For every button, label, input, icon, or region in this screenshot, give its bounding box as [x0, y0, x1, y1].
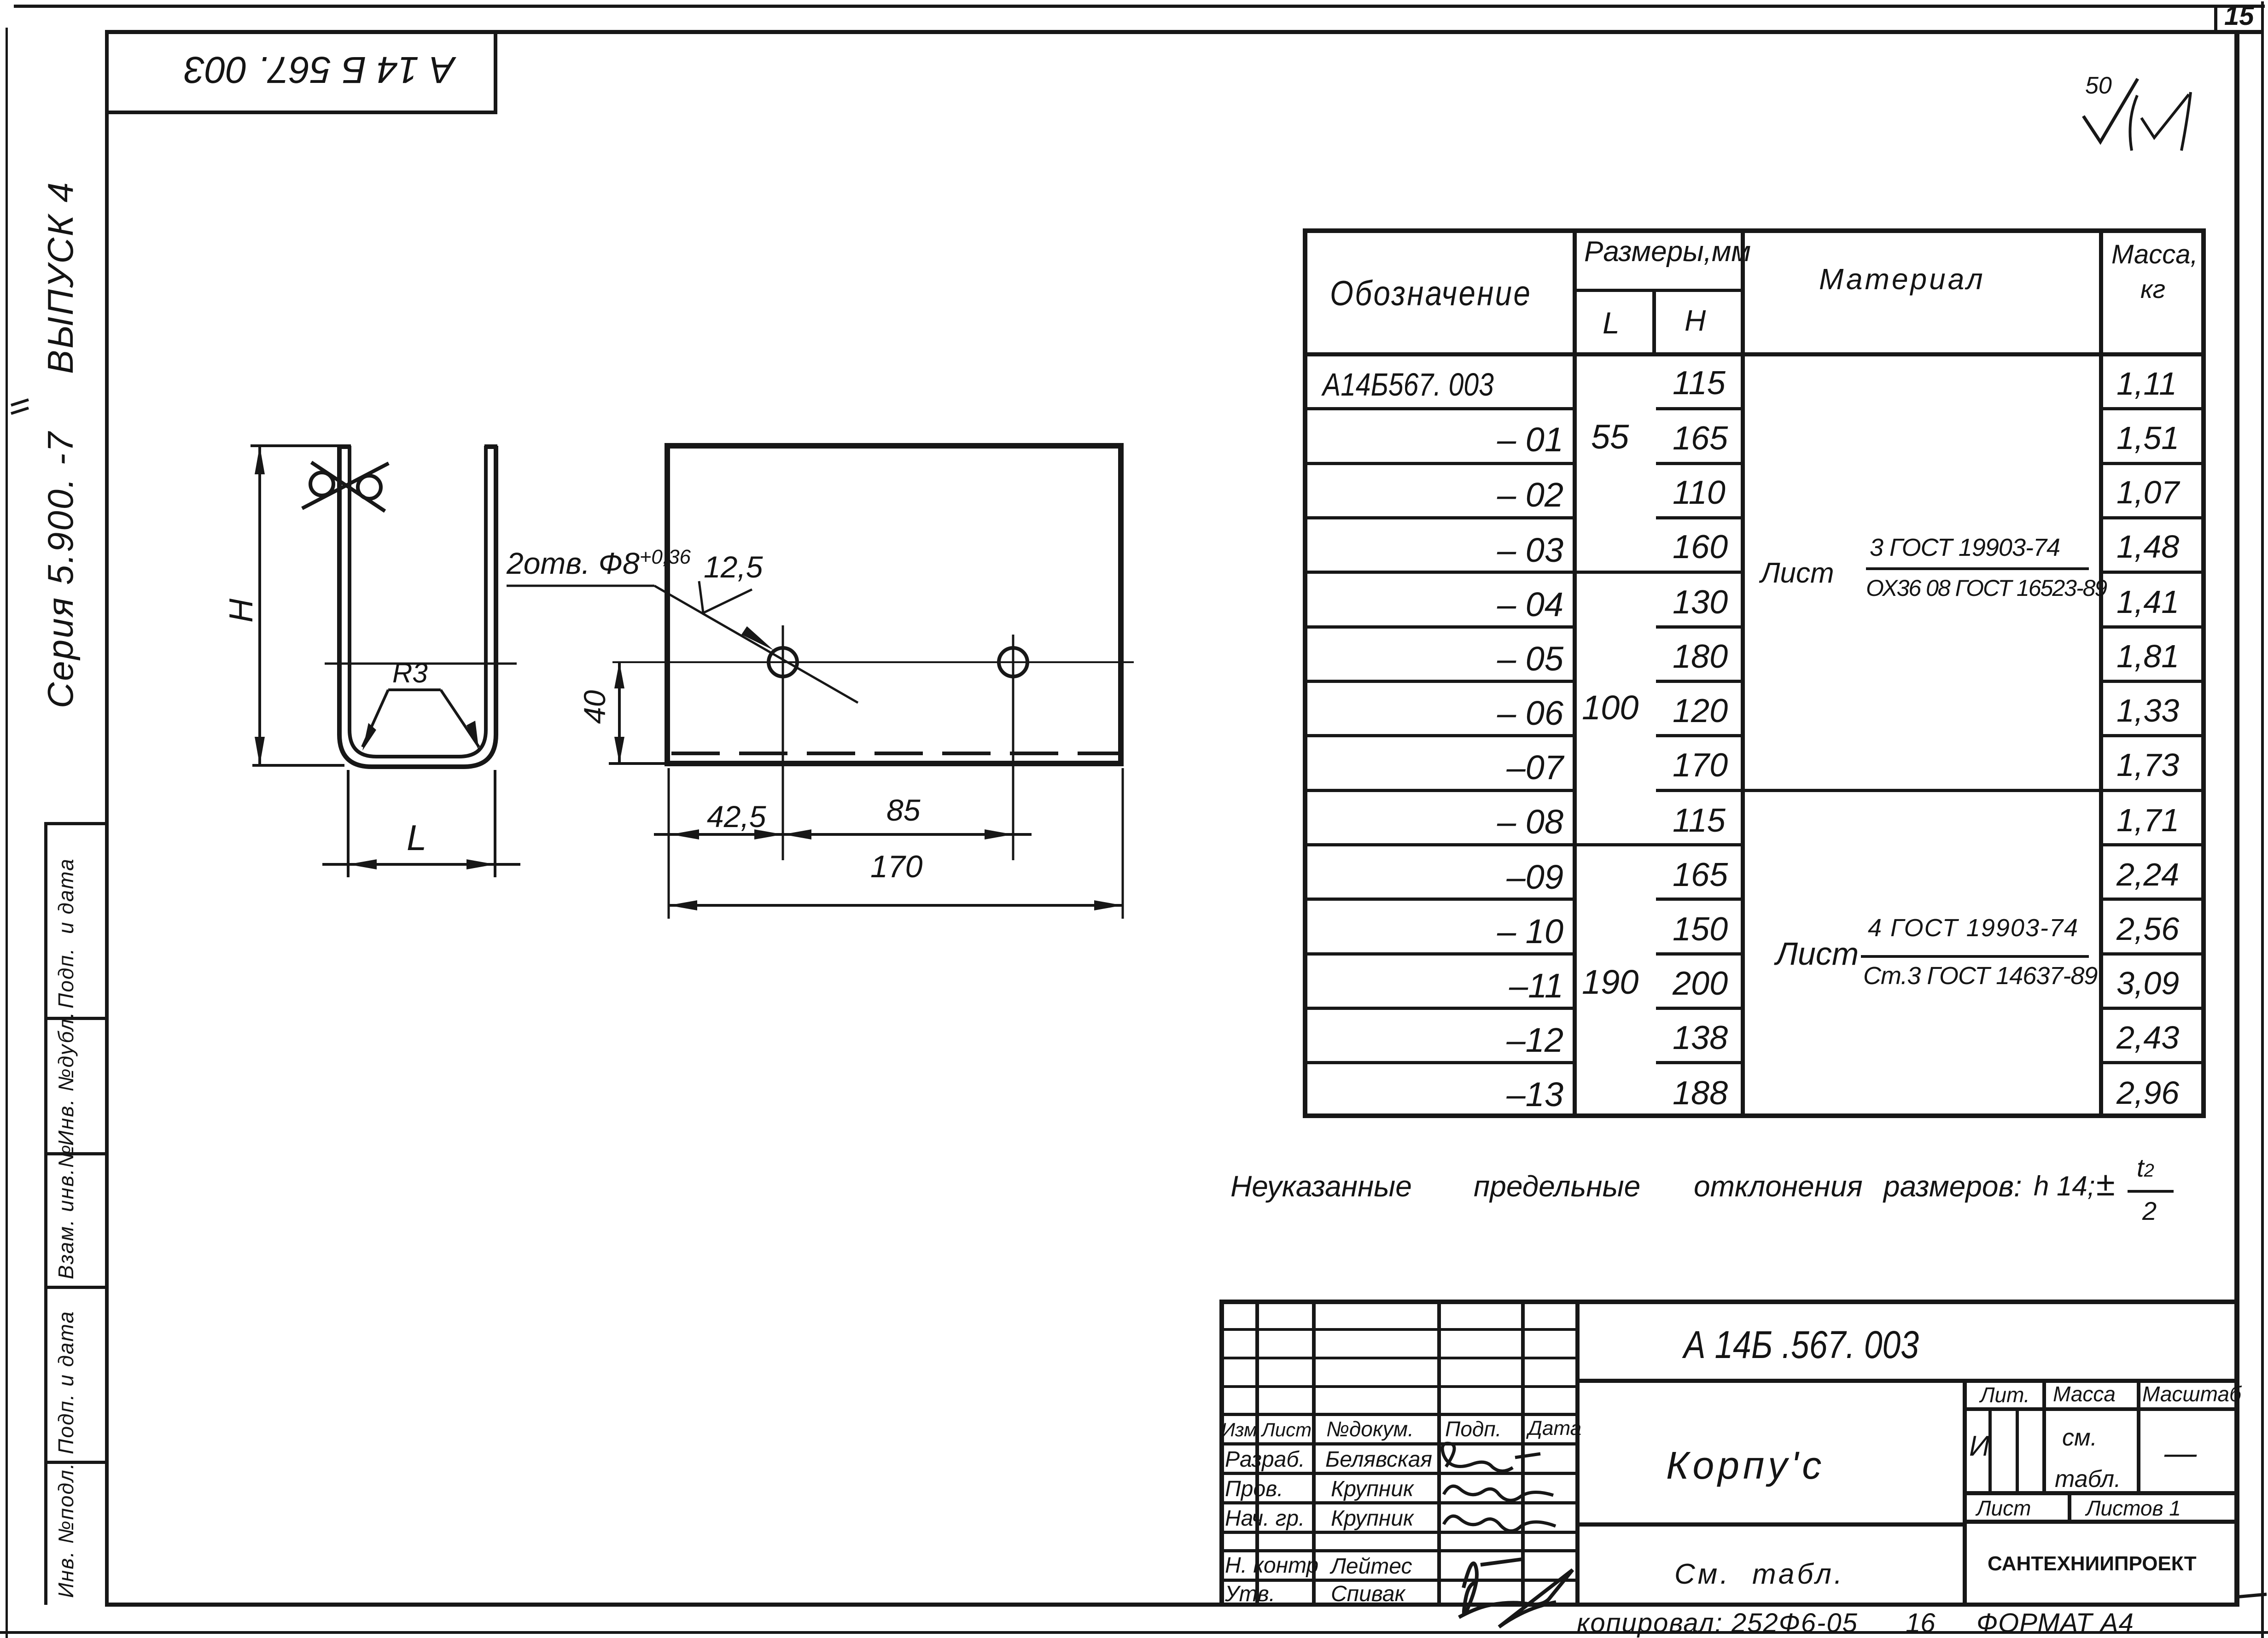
- big doc number cell: [1575, 1379, 2239, 1383]
- paper right edge line: [2261, 1, 2264, 1638]
- material col group line: [1745, 789, 2099, 792]
- 170 label: [870, 851, 922, 882]
- 170 dim line: [669, 904, 1123, 907]
- H dimension extension top: [251, 444, 346, 447]
- 42,5 / 85 dim line: [654, 833, 1032, 836]
- header bottom line: [1303, 352, 2205, 356]
- 50 roughness label: [2085, 74, 2112, 98]
- 40 ext bottom: [609, 762, 669, 765]
- frame right: [2234, 30, 2239, 1607]
- plate dashed bottom line: [671, 752, 1118, 755]
- leader arrow barb: [741, 626, 774, 650]
- material group 1: [1761, 559, 1834, 588]
- table body texts: [1323, 368, 1494, 401]
- L dimension ext lines: [348, 770, 495, 877]
- stamp texts (rotated 90 ccw): [55, 858, 76, 1008]
- L col group lines: [1577, 571, 1656, 574]
- 2 holes label: [507, 548, 691, 578]
- box 15 left edge: [2214, 5, 2217, 33]
- R3 label: [392, 659, 428, 687]
- paper left edge line: [6, 28, 8, 1638]
- weld roll symbol left circle: [310, 472, 333, 495]
- plate horizontal centre line: [612, 661, 1134, 663]
- header texts: [1330, 276, 1532, 311]
- lit subdivisions: [1988, 1411, 1992, 1494]
- hole 1: [769, 648, 797, 676]
- L dim arrows: [348, 859, 495, 869]
- H dimension line: [258, 446, 261, 765]
- paper bottom edge line: [0, 1631, 2268, 1634]
- ext lines below plate: [669, 768, 1123, 919]
- hole 1 vertical centre line: [782, 625, 784, 860]
- oboznachenie col row lines: [1307, 407, 1573, 410]
- H col row lines: [1656, 407, 1741, 410]
- material group 2: [1776, 938, 1859, 970]
- doc number text rotated 180: [184, 51, 455, 88]
- paper top edge line: [14, 5, 2265, 8]
- 40 dim arrows: [614, 662, 624, 764]
- frame left: [105, 30, 109, 1607]
- H values: [1673, 367, 1726, 400]
- massa values: [2116, 367, 2177, 400]
- 42,5 label: [707, 801, 766, 832]
- H dim arrows: [255, 446, 265, 765]
- centre line of U: [325, 663, 517, 665]
- weld cross line 1: [311, 462, 385, 511]
- L label: [407, 820, 426, 856]
- surface finish mark 50 with checkmarks (top right): [2083, 79, 2138, 142]
- U top caps: [338, 444, 497, 449]
- label 15: [2224, 3, 2254, 29]
- table outer border: [1303, 228, 2205, 233]
- left section texts: [1221, 1420, 1257, 1440]
- hole 2: [999, 648, 1027, 676]
- R3 annotation trapezoid: [362, 690, 479, 747]
- sm tabl bottom cell line: [1575, 1522, 1967, 1527]
- H label: [225, 599, 258, 623]
- middle/right divider: [1963, 1379, 1967, 1605]
- column lines: [1573, 228, 1577, 1118]
- weld roll symbol right circle: [358, 476, 381, 499]
- santehnii proekt: [1988, 1554, 2197, 1574]
- left edge small arrow artifact: [11, 400, 29, 414]
- 85 label: [886, 795, 920, 825]
- 12,5 roughness tick: [699, 581, 752, 613]
- outer borders: [1219, 1300, 2239, 1304]
- frame top: [105, 30, 2262, 34]
- plate view rectangle: [667, 446, 1121, 764]
- massa col row lines: [2103, 407, 2201, 410]
- 170 arrows: [669, 900, 1123, 910]
- L dimension line: [322, 863, 520, 866]
- U inner contour: [350, 446, 486, 757]
- H dimension extension bottom: [252, 764, 344, 767]
- U outer contour: [339, 446, 496, 767]
- 40 label: [579, 690, 610, 724]
- weld cross line 2: [302, 463, 389, 508]
- 12,5 label: [704, 552, 763, 582]
- right margin tick: [2236, 1594, 2267, 1597]
- razmery sub line: [1573, 289, 1745, 292]
- 42,5/85 arrows: [670, 829, 1013, 839]
- L values: [1591, 420, 1629, 454]
- 40 dim line: [618, 662, 621, 764]
- leader line to holes: [507, 586, 858, 703]
- list/listov row: [1963, 1491, 2239, 1495]
- left section row lines: [1219, 1328, 1579, 1331]
- right part: lit/massa/masshtab: [1963, 1407, 2239, 1411]
- left section verticals: [1255, 1300, 1259, 1605]
- frame bottom: [105, 1603, 2239, 1607]
- hole 2 vertical centre line: [1012, 635, 1014, 860]
- korpus cell text: [1666, 1446, 1825, 1485]
